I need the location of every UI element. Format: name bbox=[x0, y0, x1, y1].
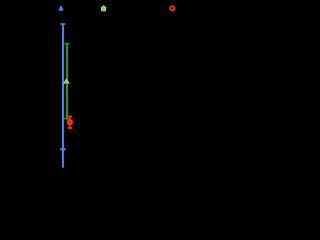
red circle marker dark center bbox=[69, 121, 71, 123]
green errorbar vertical line bbox=[66, 43, 68, 118]
legend marker red ring bbox=[170, 6, 174, 10]
green errorbar top cap bbox=[65, 43, 70, 45]
legend pentagon inner tint bbox=[102, 7, 105, 10]
red errorbar bottom cap bbox=[68, 127, 73, 129]
legend marker blue triangle bbox=[59, 6, 63, 10]
blue errorbar top cap bbox=[60, 23, 65, 25]
light green caret marker center tint bbox=[65, 81, 68, 83]
red errorbar vertical line bbox=[69, 116, 71, 128]
blue caret marker bbox=[59, 147, 67, 151]
green errorbar bottom cap bbox=[64, 118, 69, 120]
red errorbar top cap bbox=[68, 115, 72, 117]
blue errorbar vertical line bbox=[62, 24, 64, 168]
legend marker green pentagon bbox=[101, 6, 105, 11]
red circle marker bbox=[67, 119, 73, 125]
light green caret marker bbox=[64, 79, 70, 83]
